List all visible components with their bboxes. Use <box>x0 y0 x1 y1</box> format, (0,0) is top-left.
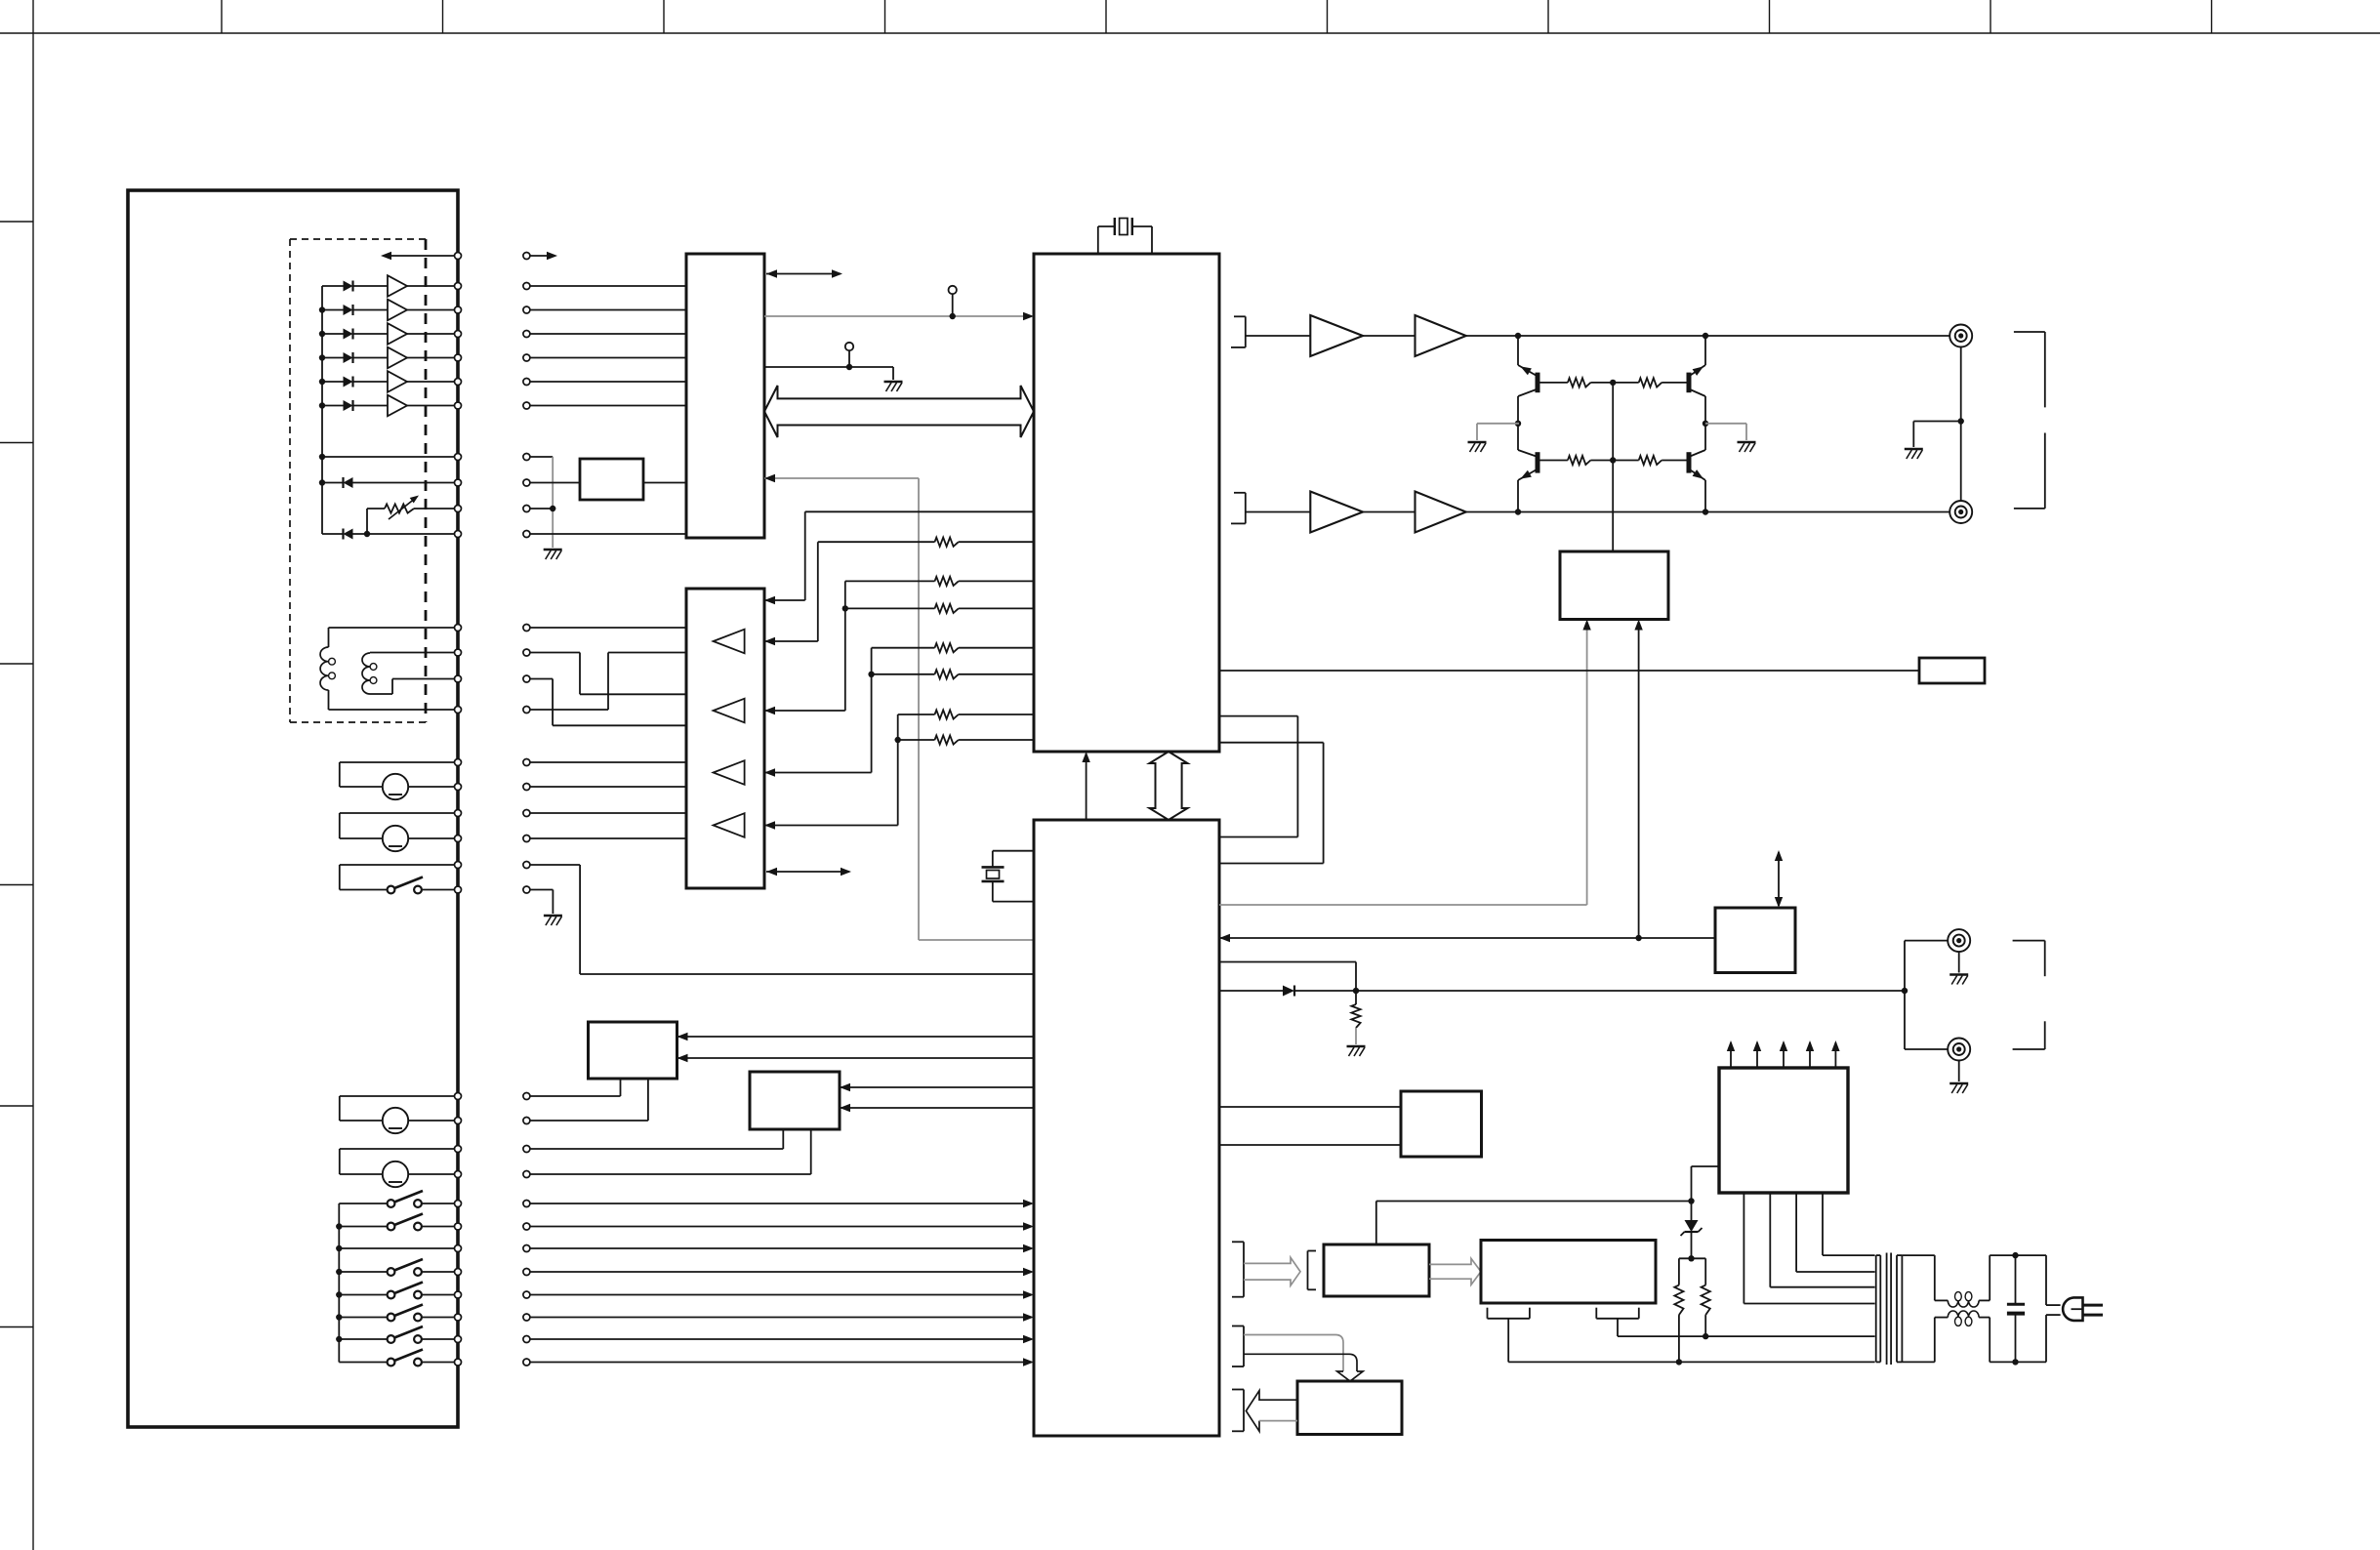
wire <box>818 541 935 543</box>
wire <box>764 315 1023 317</box>
LED D5 <box>322 377 388 387</box>
wire <box>959 673 1034 675</box>
resistor R18 <box>1674 1258 1683 1362</box>
wire <box>817 542 819 641</box>
wire <box>897 714 899 826</box>
panel connector pin <box>455 354 462 361</box>
junction <box>1902 988 1908 994</box>
cable connector pin <box>523 506 530 512</box>
panel connector pin <box>455 1201 462 1207</box>
muting control U5 <box>1560 551 1668 620</box>
resistor R1 <box>935 538 959 547</box>
wire <box>1979 1255 2015 1300</box>
connector bracket <box>1308 1251 1317 1290</box>
wire <box>1466 511 1961 513</box>
front panel unit P1 <box>128 190 458 1427</box>
wire <box>328 628 330 647</box>
wire <box>1958 1061 1960 1082</box>
junction <box>1610 457 1616 463</box>
remote sensor block U12 <box>1297 1381 1402 1435</box>
panel connector pin <box>455 1336 462 1343</box>
coil L1 <box>320 647 335 690</box>
panel connector pin <box>455 759 462 766</box>
wire <box>1913 422 1960 448</box>
wire <box>530 357 686 359</box>
RCA jack J4 <box>1948 1039 1970 1061</box>
panel connector pin <box>455 707 462 714</box>
wire <box>1376 1202 1692 1245</box>
connector bracket <box>1232 1326 1244 1367</box>
IC2 system control <box>1034 820 1219 1436</box>
arrow into U5 <box>1634 620 1642 631</box>
arrow into IC2 <box>1023 1200 1034 1207</box>
wire <box>898 714 935 715</box>
switch bus <box>338 1203 340 1363</box>
arrow into U4 <box>764 596 775 604</box>
wire <box>1905 941 1949 991</box>
IC U4 display driver <box>686 589 764 888</box>
wire <box>1679 1257 1705 1259</box>
connector bracket <box>2013 941 2045 1049</box>
RCA jack J1 <box>1949 325 1972 347</box>
power rail arrow <box>1831 1040 1839 1068</box>
ground <box>1468 442 1487 452</box>
cable connector pin <box>523 1314 530 1321</box>
data bus arrow IC1-IC2 <box>1150 752 1188 820</box>
cable connector pin <box>523 1336 530 1343</box>
transformer T1 core <box>1887 1253 1892 1366</box>
choke L4 <box>1948 1311 1979 1326</box>
LED driver buffer <box>388 395 455 417</box>
wire <box>1905 991 1949 1049</box>
motor M4 <box>340 1149 455 1187</box>
wire <box>530 1294 1031 1296</box>
junction <box>1515 509 1521 514</box>
wire <box>530 533 686 535</box>
wire <box>530 837 686 839</box>
panel connector pin <box>455 379 462 386</box>
wire <box>1638 622 1640 938</box>
wire <box>530 456 553 458</box>
junction <box>336 1223 342 1229</box>
panel connector pin <box>455 886 462 893</box>
wire <box>1612 383 1614 461</box>
wire <box>530 653 686 695</box>
driver element <box>714 630 745 654</box>
panel connector pin <box>455 506 462 512</box>
LED driver buffer <box>388 300 455 321</box>
bus arrow <box>1775 850 1783 908</box>
wire <box>1960 347 1962 502</box>
switch S2 <box>339 1191 454 1207</box>
cable connector pin <box>523 1223 530 1230</box>
wire <box>1618 1319 1705 1336</box>
panel connector pin <box>455 836 462 842</box>
switch S3 <box>339 1214 454 1231</box>
ground <box>1905 449 1923 459</box>
wire <box>677 1036 1035 1038</box>
flat cable arrow <box>1429 1258 1481 1285</box>
connector bracket <box>1488 1308 1530 1319</box>
flat cable arrow <box>1246 1391 1297 1432</box>
wire <box>1508 1319 1679 1363</box>
LED D6 <box>322 400 388 411</box>
resistor R15 <box>1540 456 1614 465</box>
LED D1 <box>322 281 388 292</box>
connector bracket <box>1232 1390 1244 1432</box>
panel connector pin <box>455 531 462 538</box>
wire <box>1517 396 1519 450</box>
wire <box>530 1317 1031 1319</box>
wire <box>1219 716 1297 837</box>
wire <box>959 541 1034 543</box>
junction <box>364 531 370 537</box>
ground <box>1738 442 1756 452</box>
wire <box>1902 1318 1948 1363</box>
switch S1 <box>340 865 455 893</box>
wire <box>1363 335 1416 337</box>
wire <box>530 255 554 257</box>
wire <box>367 509 385 534</box>
capacitor C1 <box>2007 1255 2025 1362</box>
wire <box>384 255 455 257</box>
wire <box>329 690 455 710</box>
cable connector pin <box>523 886 530 893</box>
wire <box>530 761 686 763</box>
test point TP2 <box>845 343 853 370</box>
cable connector pin <box>523 1291 530 1298</box>
cable connector pin <box>523 759 530 766</box>
power rail arrow <box>1780 1040 1787 1068</box>
junction <box>1353 988 1359 994</box>
LED D3 <box>322 329 388 340</box>
wire <box>1246 511 1311 513</box>
wire <box>764 772 872 774</box>
wire <box>1770 1193 1874 1287</box>
resistor R3 <box>935 604 959 613</box>
wire <box>1219 1106 1401 1108</box>
switch S8 <box>339 1350 454 1366</box>
wire <box>1796 1193 1875 1272</box>
arrow into IC2 <box>1023 1313 1034 1321</box>
cable connector pin <box>523 306 530 313</box>
dashed enclosure (display assy) <box>290 239 426 722</box>
junction <box>1688 1255 1694 1261</box>
key block U10 <box>1324 1244 1429 1296</box>
crystal X1 <box>1098 218 1152 254</box>
junction <box>842 605 848 611</box>
arrow into IC2 <box>1023 1358 1034 1366</box>
panel connector pin <box>455 862 462 869</box>
wire <box>677 1057 1035 1059</box>
motor driver U7 <box>589 1022 677 1079</box>
resistor R2 <box>935 577 959 586</box>
resistor R19 <box>1702 1258 1710 1336</box>
arrow into U4 <box>764 637 775 645</box>
cable connector pin <box>523 454 530 461</box>
wire <box>530 482 580 484</box>
diode D8 <box>344 529 455 540</box>
LED driver buffer <box>388 347 455 369</box>
resistor R4 <box>935 643 959 652</box>
indicator block U9 <box>1401 1091 1482 1157</box>
ground <box>884 382 903 391</box>
panel connector pin <box>455 1146 462 1153</box>
panel connector pin <box>455 1171 462 1178</box>
junction <box>319 331 325 337</box>
resistor R13 <box>1540 378 1614 387</box>
LED driver buffer <box>388 323 455 345</box>
panel connector pin <box>455 1118 462 1124</box>
wire <box>845 580 935 582</box>
wire <box>530 890 553 915</box>
arrow into IC2 <box>1023 1268 1034 1276</box>
junction <box>1610 380 1616 386</box>
cable connector pin <box>523 649 530 656</box>
wire <box>530 865 1034 974</box>
panel connector pin <box>455 306 462 313</box>
wire <box>871 648 873 773</box>
ground <box>544 916 562 925</box>
power rail arrow <box>1753 1040 1761 1068</box>
wire <box>1477 424 1519 440</box>
transformer T1 secondary <box>1897 1255 1902 1362</box>
connector bracket <box>1232 1242 1244 1296</box>
wire <box>1246 335 1311 337</box>
wire <box>1979 1318 2015 1363</box>
panel connector pin <box>455 479 462 486</box>
heavy dashed partition <box>425 239 428 722</box>
wire <box>1466 335 1961 337</box>
wire <box>1355 991 1357 1004</box>
test point TP1 <box>949 286 957 319</box>
zener diode ZD1 <box>1681 1202 1703 1259</box>
wire <box>530 1129 783 1149</box>
cable connector pin <box>523 810 530 817</box>
arrow into U7 <box>677 1033 688 1040</box>
panel connector pin <box>455 1359 462 1366</box>
junction <box>2012 1359 2018 1365</box>
wire <box>530 786 686 788</box>
wire <box>1219 962 1356 992</box>
cable connector pin <box>523 784 530 791</box>
junction <box>319 454 325 460</box>
transistor Q1 <box>1518 365 1538 396</box>
motor M2 <box>340 813 455 851</box>
wire <box>530 1362 1031 1364</box>
wire <box>840 1086 1034 1088</box>
LED D4 <box>322 352 388 363</box>
junction <box>319 354 325 360</box>
junction <box>1676 1359 1682 1365</box>
arrow into U7 <box>677 1054 688 1062</box>
ground <box>1347 1046 1366 1056</box>
wire <box>530 405 686 407</box>
junction <box>319 379 325 385</box>
panel connector pin <box>455 331 462 338</box>
junction <box>868 672 874 677</box>
switch S7 <box>339 1326 454 1343</box>
wire <box>530 285 686 287</box>
wire <box>1692 1166 1720 1202</box>
junction <box>1635 935 1641 941</box>
resistor R5 <box>935 670 959 678</box>
buffer B <box>1416 492 1466 533</box>
wire <box>1704 336 1706 365</box>
arrow IC2 to IC1 <box>1082 752 1089 820</box>
resistor R6 <box>935 710 959 718</box>
RCA jack J3 <box>1948 929 1970 952</box>
data bus arrow U2-IC1 <box>764 386 1034 437</box>
cable connector pin <box>523 625 530 632</box>
cable connector pin <box>523 862 530 869</box>
junction <box>319 479 325 485</box>
wire <box>2016 1255 2061 1305</box>
junction <box>336 1314 342 1320</box>
wire <box>1586 622 1588 905</box>
wire <box>1902 1255 1948 1300</box>
wire <box>1744 1193 1874 1304</box>
motor M1 <box>340 762 455 799</box>
LED driver buffer <box>388 275 455 297</box>
arrow into U4 <box>764 768 775 776</box>
wire <box>959 714 1034 715</box>
bus arrow <box>766 269 842 277</box>
cable connector pin <box>523 1201 530 1207</box>
wire <box>1219 1144 1401 1146</box>
wire <box>1517 336 1519 365</box>
switch S5 <box>339 1283 454 1299</box>
junction <box>336 1291 342 1297</box>
system control connector U6 <box>1715 908 1795 973</box>
resistor R17 <box>1351 1004 1360 1028</box>
arrow into U5 <box>1582 620 1590 631</box>
cable connector pin <box>523 283 530 290</box>
junction <box>319 402 325 408</box>
arrow into IC2 <box>1023 1244 1034 1252</box>
junction <box>319 306 325 312</box>
wire <box>764 710 845 712</box>
wire <box>1823 1193 1875 1255</box>
LED driver buffer <box>388 371 455 392</box>
cable connector pin <box>523 1245 530 1252</box>
wire <box>1219 937 1715 939</box>
switch S6 <box>339 1305 454 1322</box>
cable connector pin <box>523 379 530 386</box>
wire <box>872 673 935 675</box>
arrow into IC2 <box>1023 1222 1034 1230</box>
wire <box>1612 461 1614 552</box>
transistor Q4 <box>1689 450 1705 480</box>
cable connector pin <box>523 1171 530 1178</box>
cable connector pin <box>523 331 530 338</box>
RCA jack J2 <box>1949 501 1972 523</box>
arrow into U8 <box>840 1083 850 1091</box>
connector bracket <box>1596 1308 1639 1319</box>
junction <box>1703 1333 1708 1339</box>
wire <box>764 599 805 601</box>
wire <box>840 1107 1034 1109</box>
buffer A <box>1310 315 1363 356</box>
junction <box>336 1245 342 1251</box>
wire <box>530 508 553 510</box>
cable connector pin <box>523 1269 530 1276</box>
cable connector pin <box>523 836 530 842</box>
arrow to logic <box>547 252 557 260</box>
wire <box>1219 670 1919 672</box>
panel connector pin <box>455 784 462 791</box>
choke L3 <box>1948 1292 1979 1307</box>
wire <box>1219 904 1587 906</box>
arrow into IC2 <box>1023 1290 1034 1298</box>
arrow into IC2 <box>1219 934 1230 942</box>
motor driver U8 <box>750 1072 840 1129</box>
junction <box>1703 421 1708 427</box>
transformer T1 primary <box>1876 1255 1881 1362</box>
power rail arrow <box>1806 1040 1814 1068</box>
resistor R16 <box>1613 456 1686 465</box>
panel connector pin <box>455 1269 462 1276</box>
diode D9 <box>1219 986 1356 997</box>
wire <box>919 939 1034 941</box>
power rail arrow <box>1727 1040 1735 1068</box>
junction <box>336 1269 342 1275</box>
wire <box>370 679 455 695</box>
mute feedback wire <box>764 478 919 940</box>
wire <box>2016 1315 2061 1362</box>
regulator block U13 <box>1719 1068 1848 1193</box>
wire <box>892 367 894 380</box>
junction <box>1688 1198 1694 1203</box>
wire <box>804 511 806 600</box>
wire <box>530 653 686 711</box>
ground <box>1949 975 1968 985</box>
ground <box>1949 1083 1968 1093</box>
wire <box>530 1129 811 1174</box>
wire <box>1356 990 1905 992</box>
wire <box>370 652 455 654</box>
panel connector pin <box>455 253 462 260</box>
wire <box>530 1226 1031 1228</box>
wire <box>530 1271 1031 1273</box>
arrow into U2 <box>764 474 775 482</box>
diode D7 <box>322 477 455 488</box>
wire <box>872 647 935 649</box>
junction <box>1703 333 1708 339</box>
junction <box>1958 418 1964 424</box>
wire <box>530 679 686 726</box>
arrow into IC2 <box>1023 1335 1034 1343</box>
junction <box>2012 1252 2018 1258</box>
wire <box>1219 743 1324 864</box>
wire <box>329 627 455 629</box>
connector bracket <box>2014 332 2045 509</box>
wire <box>552 457 554 548</box>
flat cable arrow <box>1244 1257 1300 1285</box>
arrow into U4 <box>764 707 775 714</box>
buffer B <box>1416 315 1466 356</box>
wire <box>530 309 686 311</box>
bus arrow <box>766 868 851 876</box>
wire <box>1704 480 1706 512</box>
wire <box>1704 396 1706 450</box>
wire <box>1517 480 1519 512</box>
wire <box>322 533 344 535</box>
ceramic resonator X2 <box>982 851 1035 902</box>
LED cathode bus <box>321 286 323 534</box>
wire <box>1958 952 1960 973</box>
wire <box>643 482 686 484</box>
